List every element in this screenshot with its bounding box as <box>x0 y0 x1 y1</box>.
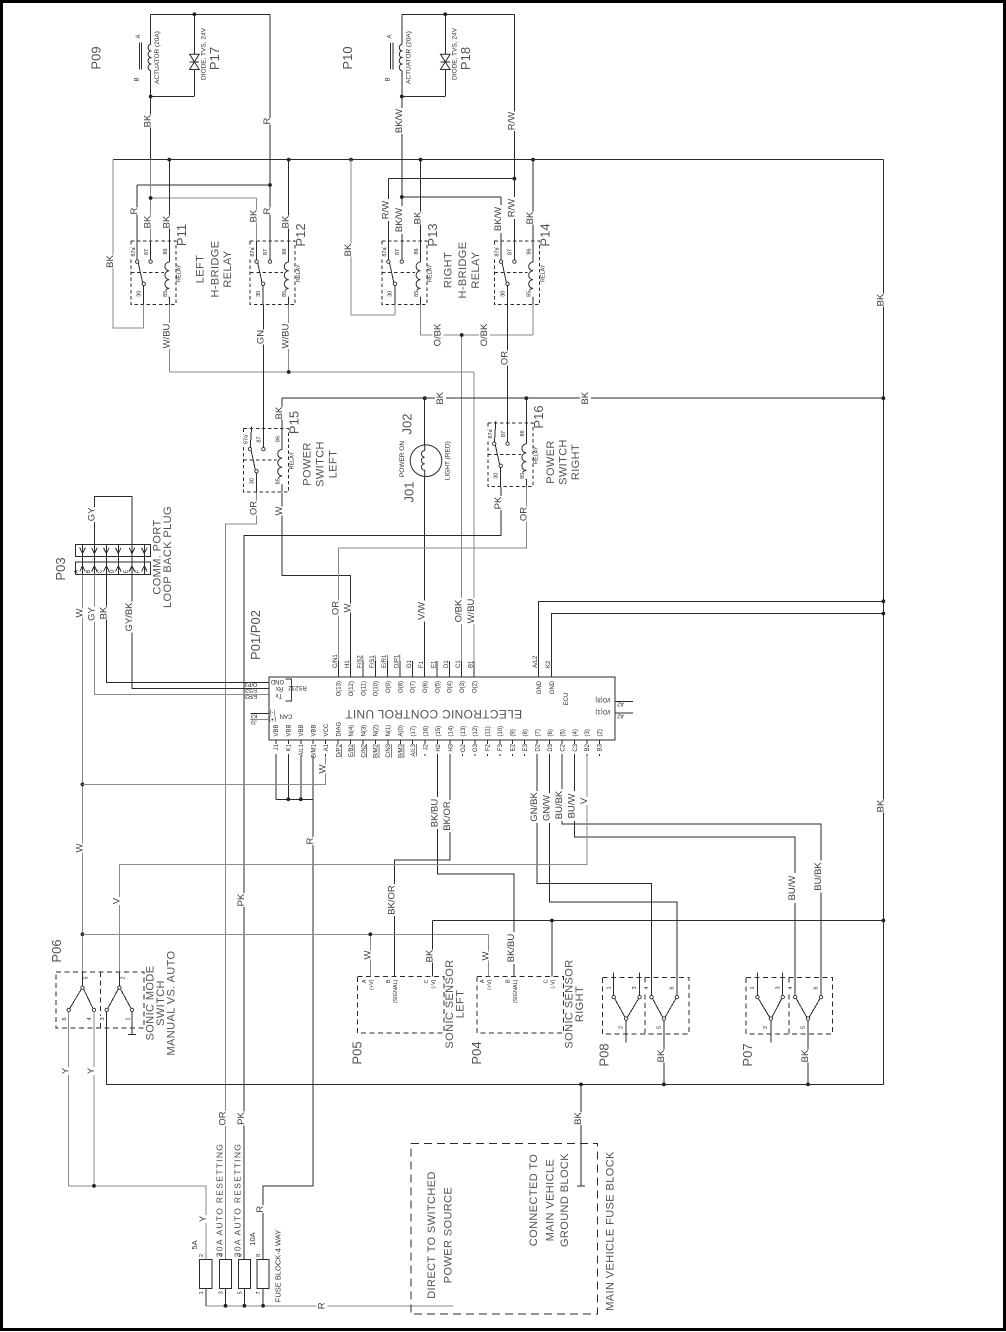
svg-text:VBB: VBB <box>274 724 280 736</box>
relay P12 contact 87a <box>255 260 258 263</box>
connector P10 actuator <box>402 13 515 15</box>
svg-text:6: 6 <box>62 1017 68 1020</box>
wire BK net sensor -V returns <box>432 920 883 922</box>
wire BK bus drop to P13-30 <box>351 160 395 315</box>
fuse 2 body <box>219 1260 231 1289</box>
svg-text:N(4): N(4) <box>349 725 355 737</box>
wire BU/BK net ECU C2 to P07-6 <box>562 756 821 995</box>
relay P12 pin labels <box>250 246 257 256</box>
svg-text:O(8): O(8) <box>398 681 404 693</box>
relay P13 outline <box>382 241 427 305</box>
svg-text:3: 3 <box>100 1017 106 1020</box>
svg-text:5: 5 <box>800 1026 806 1029</box>
relay P14 outline <box>495 241 540 305</box>
svg-text:10A: 10A <box>248 1232 257 1245</box>
wire OR net P14-30 to P16-87 <box>507 305 509 424</box>
relay P14 contact 87a <box>499 260 502 263</box>
svg-text:C/N3: C/N3 <box>386 743 392 757</box>
relay P13 contact 87a <box>387 260 390 263</box>
svg-text:O(10): O(10) <box>374 681 380 696</box>
wire diode to actuator B P09 <box>151 96 195 98</box>
svg-text:BK: BK <box>98 606 109 619</box>
svg-text:GY/BK: GY/BK <box>124 602 135 632</box>
ECU top pin O(9) net E/R1 <box>387 661 389 677</box>
svg-text:BK: BK <box>424 949 435 962</box>
svg-text:E/R3: E/R3 <box>245 693 257 699</box>
svg-text:W: W <box>362 950 373 959</box>
svg-text:Tx: Tx <box>276 692 283 698</box>
svg-text:P14: P14 <box>538 223 553 246</box>
svg-text:O(3): O(3) <box>460 681 466 693</box>
svg-text:B/M1: B/M1 <box>312 743 318 758</box>
relay P16 pin labels <box>487 428 494 438</box>
svg-text:R/W: R/W <box>506 112 517 131</box>
ECU bottom pin VCC net A1 <box>325 740 327 756</box>
svg-text:87a: 87a <box>250 246 256 256</box>
P03 pin A contact <box>82 545 84 575</box>
svg-text:O(6): O(6) <box>423 681 429 693</box>
relay P12 outline <box>250 241 295 305</box>
svg-text:GY: GY <box>86 606 97 620</box>
svg-text:GN/W: GN/W <box>542 795 553 821</box>
svg-text:(-V): (-V) <box>431 979 437 988</box>
wire R/W net P18 to P13-87a and P14-87 <box>388 178 514 180</box>
P08 contacts <box>613 972 615 995</box>
P07 contacts <box>756 972 758 995</box>
ECU bottom pin (8) net E3 <box>524 740 526 756</box>
ECU bottom pin (14) net H3 <box>449 740 451 756</box>
P08 blades <box>615 999 625 1018</box>
wire GY loopback P03 B to E <box>94 496 131 544</box>
svg-text:O(11): O(11) <box>361 681 367 696</box>
svg-text:A/L1: A/L1 <box>299 743 305 756</box>
lamp J02 power-on light <box>424 398 426 445</box>
wire BK P07 pin 5 to ground bus <box>807 1020 809 1084</box>
relay P15 pin labels <box>243 434 250 444</box>
P03 pin D contact <box>117 545 119 575</box>
wire V net ECU B2 to P06-2 <box>119 756 587 972</box>
P06 pin 1 stub <box>131 1012 133 1035</box>
svg-text:BU/W: BU/W <box>566 794 577 819</box>
svg-text:86: 86 <box>527 248 533 254</box>
svg-text:BK: BK <box>143 114 154 127</box>
wire V/W lamp J01 to ECU O(6) <box>424 476 426 677</box>
svg-text:CAN: CAN <box>280 713 293 719</box>
P06 contacts 6 4 3 1 <box>67 1008 70 1011</box>
svg-text:D/P2: D/P2 <box>336 743 342 757</box>
svg-text:H-BRIDGE: H-BRIDGE <box>210 241 222 298</box>
fuse 4 body <box>257 1260 269 1289</box>
svg-text:Y: Y <box>198 1215 209 1222</box>
svg-text:RELAY: RELAY <box>222 250 234 288</box>
svg-text:R: R <box>255 1206 266 1213</box>
svg-text:A/L3: A/L3 <box>411 743 417 756</box>
svg-text:N(1): N(1) <box>386 725 392 737</box>
actuator core P10 <box>390 43 392 70</box>
svg-text:G1: G1 <box>407 659 413 668</box>
wire stub ECU B3 <box>598 755 600 757</box>
svg-text:GND: GND <box>537 680 543 694</box>
svg-text:C: C <box>424 979 430 983</box>
ECU top pin O(7) net G1 <box>411 661 413 677</box>
svg-text:87a: 87a <box>244 434 250 444</box>
relay P16 coil <box>525 423 527 444</box>
svg-text:BK: BK <box>343 243 354 256</box>
svg-text:F1: F1 <box>419 660 425 668</box>
svg-text:N(3): N(3) <box>361 725 367 737</box>
relay P16 outline <box>488 423 533 487</box>
wire BK bus right drop <box>882 160 884 1085</box>
relay P12 coil <box>288 241 290 262</box>
svg-text:LEFT: LEFT <box>328 450 340 479</box>
ECU CAN stub K3 <box>251 713 269 715</box>
svg-text:30A AUTO RESETTING: 30A AUTO RESETTING <box>214 1143 224 1257</box>
svg-text:RIGHT: RIGHT <box>570 444 582 480</box>
svg-text:PK: PK <box>236 893 247 906</box>
svg-text:SWITCH: SWITCH <box>558 439 570 485</box>
ECU bottom pin (2) net B3 <box>598 740 600 756</box>
svg-text:D: D <box>110 569 116 573</box>
svg-text:(5): (5) <box>560 729 566 736</box>
svg-text:J02: J02 <box>400 414 415 435</box>
svg-text:J01: J01 <box>402 482 417 503</box>
svg-text:BK/BU: BK/BU <box>430 799 441 828</box>
svg-text:4: 4 <box>788 986 794 989</box>
svg-text:R: R <box>305 837 316 844</box>
fuse 1 body <box>200 1260 212 1289</box>
svg-text:B3: B3 <box>598 743 604 751</box>
connector P04 outline <box>477 977 563 1034</box>
svg-text:85: 85 <box>527 291 533 297</box>
fuse 3 body <box>238 1260 250 1289</box>
ECU RS232 port <box>286 679 292 701</box>
svg-text:P07: P07 <box>740 1043 755 1066</box>
wire W net ECU A1 <box>83 756 326 784</box>
svg-text:E1: E1 <box>432 660 438 668</box>
svg-text:BK/W: BK/W <box>394 109 405 133</box>
svg-text:87a: 87a <box>131 246 137 256</box>
svg-text:RELAY: RELAY <box>428 264 434 282</box>
svg-text:BK/W: BK/W <box>493 207 504 231</box>
svg-text:R: R <box>262 117 273 124</box>
svg-text:D/P1: D/P1 <box>395 654 401 668</box>
relay P12 contact 87 <box>268 260 271 263</box>
svg-text:1: 1 <box>125 1017 131 1020</box>
wire R net P17 to P11-87a and P12-87 <box>137 184 270 186</box>
wire W net P15-85 to ECU O(12) <box>282 493 351 678</box>
svg-text:W/BU: W/BU <box>281 323 292 348</box>
svg-text:E: E <box>123 569 129 573</box>
svg-text:1: 1 <box>199 1291 205 1294</box>
relay P16 contact 87 <box>506 442 509 445</box>
svg-text:P01/P02: P01/P02 <box>248 610 263 660</box>
wire BK net P06-3 to ground bus <box>106 1012 108 1085</box>
svg-text:ACTUATOR (20A): ACTUATOR (20A) <box>405 31 412 84</box>
svg-text:I/O(1): I/O(1) <box>595 708 610 714</box>
svg-text:87: 87 <box>395 249 401 255</box>
P03 pin F contact <box>143 545 145 575</box>
svg-text:A: A <box>136 34 142 38</box>
wire R net VBB to fuse 4 <box>263 799 313 1259</box>
relay P15 contact 87 <box>262 447 265 450</box>
svg-text:K3: K3 <box>251 713 258 719</box>
svg-text:P09: P09 <box>89 46 104 69</box>
svg-text:R/W: R/W <box>506 199 517 218</box>
relay P14 contact 87 <box>513 260 516 263</box>
svg-text:GY: GY <box>86 507 97 521</box>
svg-text:GN: GN <box>255 330 266 344</box>
svg-text:C3: C3 <box>573 743 579 751</box>
svg-text:3: 3 <box>775 986 781 989</box>
svg-text:VCC: VCC <box>324 723 330 736</box>
svg-text:(9): (9) <box>511 729 517 736</box>
svg-text:Rx: Rx <box>276 685 283 691</box>
svg-text:O(2): O(2) <box>472 681 478 693</box>
svg-text:R/W: R/W <box>380 201 391 220</box>
relay P11 pin labels <box>130 246 137 256</box>
wire GY/BK P03-E to ECU Rx <box>132 575 269 689</box>
ECU top pin O(12) net H1 <box>350 661 352 677</box>
svg-text:RELAY: RELAY <box>534 446 540 464</box>
svg-text:87: 87 <box>257 436 263 442</box>
svg-text:R: R <box>129 207 140 214</box>
wire W net supply to sensors <box>83 933 489 935</box>
svg-text:4: 4 <box>87 1017 93 1020</box>
svg-text:(13): (13) <box>461 726 467 737</box>
svg-text:OR: OR <box>500 351 511 365</box>
svg-text:RS232: RS232 <box>288 684 307 690</box>
junction dots on BK top bus <box>167 158 171 162</box>
svg-text:85: 85 <box>163 291 169 297</box>
svg-text:A(0): A(0) <box>399 725 405 736</box>
svg-text:W: W <box>75 608 86 617</box>
ECU electronic control unit box <box>269 677 615 740</box>
svg-text:86: 86 <box>282 248 288 254</box>
svg-text:BK: BK <box>281 215 292 228</box>
relay P16 blade <box>495 445 499 465</box>
svg-text:BK: BK <box>413 211 424 224</box>
ECU top pin O(10) net F/S1 <box>374 661 376 677</box>
wire OR net P16-85 to ECU O(13) <box>338 487 526 677</box>
svg-text:F/S2: F/S2 <box>358 655 364 668</box>
P06 switch pin 5 <box>82 972 84 986</box>
relay P13 contact 87 <box>400 260 403 263</box>
svg-text:V: V <box>111 897 122 904</box>
relay P11 contact 87a <box>136 260 139 263</box>
P07 blades <box>758 999 769 1018</box>
svg-text:A: A <box>387 34 393 38</box>
svg-text:OR: OR <box>218 1111 229 1125</box>
wire GN/BK net ECU D2 to P08-4 <box>537 756 651 995</box>
ECU right pin I/O(8) net A2 <box>615 700 633 702</box>
svg-text:87: 87 <box>508 249 514 255</box>
svg-text:(12): (12) <box>473 726 479 737</box>
svg-text:4: 4 <box>644 986 650 989</box>
wire BK left drop to relay 30 pins P11 <box>113 160 144 328</box>
svg-text:F/S3: F/S3 <box>245 687 257 693</box>
wire BK P15 coil 86 to bus <box>281 398 283 428</box>
svg-text:87a: 87a <box>495 246 501 256</box>
svg-text:RELAY: RELAY <box>470 251 482 289</box>
svg-text:PK: PK <box>236 1112 247 1125</box>
svg-text:Y: Y <box>61 1067 72 1074</box>
relay P11 outline <box>131 241 176 305</box>
svg-text:D2: D2 <box>535 743 541 751</box>
lamp filament <box>421 445 424 476</box>
svg-text:(11): (11) <box>486 726 492 736</box>
ECU bottom pin VBB net J1 <box>275 740 277 756</box>
wire Y net P06-6 <box>68 1012 70 1186</box>
ECU bottom pin (11) net F2 <box>486 740 488 756</box>
wire W/BU net P11-85 P12-85 to ECU O(2) <box>168 305 170 373</box>
P07 pivots <box>769 1017 772 1020</box>
svg-text:O(13): O(13) <box>337 681 343 696</box>
svg-text:BK: BK <box>435 391 446 404</box>
ECU bottom pin DIAG net D/P2 <box>337 740 339 756</box>
wire BK/W from P10 pin B <box>401 97 403 160</box>
svg-text:P12: P12 <box>293 223 308 246</box>
svg-text:BK: BK <box>525 211 536 224</box>
svg-text:H1: H1 <box>345 660 351 668</box>
svg-text:DIAG: DIAG <box>336 721 342 736</box>
svg-text:(2): (2) <box>598 729 604 736</box>
svg-text:W: W <box>343 603 354 612</box>
svg-text:POWER ON: POWER ON <box>399 441 406 477</box>
svg-text:(-V): (-V) <box>551 979 557 988</box>
wire Y net to fuse 1 <box>69 1186 206 1260</box>
wire GN/W net ECU D3 to P08-6 <box>550 756 677 995</box>
svg-text:87a: 87a <box>488 428 494 438</box>
relay P11 contact 87 <box>149 260 152 263</box>
svg-text:MAIN VEHICLE FUSE BLOCK: MAIN VEHICLE FUSE BLOCK <box>604 1151 616 1311</box>
svg-text:ELECTRONIC CONTROL UNIT: ELECTRONIC CONTROL UNIT <box>345 707 523 721</box>
P03 pin C contact <box>105 545 107 575</box>
ECU top pin O(8) net D/P1 <box>399 661 401 677</box>
wire Y net P06-4 <box>93 1012 95 1186</box>
svg-text:DIRECT TO SWITCHED: DIRECT TO SWITCHED <box>426 1171 438 1299</box>
relay P11 blade <box>138 263 142 283</box>
svg-text:POWER SOURCE: POWER SOURCE <box>443 1187 455 1283</box>
svg-text:6: 6 <box>670 986 676 989</box>
svg-text:B: B <box>506 979 512 983</box>
svg-text:LIGHT (RED): LIGHT (RED) <box>445 441 452 480</box>
svg-text:P08: P08 <box>596 1043 611 1066</box>
svg-text:C2: C2 <box>560 743 566 751</box>
wire PK net P16-30 to fuse 3 <box>244 487 501 1260</box>
svg-text:1: 1 <box>750 986 756 989</box>
svg-text:P15: P15 <box>287 411 302 434</box>
ECU top pin O(6) net F1 <box>424 661 426 677</box>
svg-text:ECU: ECU <box>564 693 570 706</box>
relay P14 blade <box>502 263 506 283</box>
P06 blades <box>70 989 82 1008</box>
ECU bottom pin (6) net D3 <box>549 740 551 756</box>
svg-text:G3: G3 <box>473 743 479 752</box>
svg-text:86: 86 <box>520 430 526 436</box>
svg-text:C/N1: C/N1 <box>333 654 339 668</box>
svg-text:J1: J1 <box>274 743 280 750</box>
svg-text:O/P3: O/P3 <box>245 681 258 687</box>
svg-text:VBB: VBB <box>299 724 305 736</box>
svg-text:(SIGNAL): (SIGNAL) <box>393 979 399 1003</box>
connector P06 outline <box>56 972 144 1028</box>
ECU right pin I/O(1) net A2 <box>615 712 633 714</box>
svg-text:BK: BK <box>656 1049 667 1062</box>
svg-text:VBB: VBB <box>312 724 318 736</box>
connector P03 comm port <box>75 545 150 557</box>
svg-text:ACTUATOR (20A): ACTUATOR (20A) <box>154 31 161 84</box>
wire BK bus to P13 coil 86 <box>420 160 422 241</box>
wire R from P09 diode top <box>269 14 271 185</box>
wire BK net P09-B to P11-87 and P12-87a <box>151 197 257 199</box>
ECU top pin O(5) net E1 <box>436 661 438 677</box>
svg-text:E/B2: E/B2 <box>349 743 355 757</box>
svg-text:P13: P13 <box>425 223 440 246</box>
svg-text:C/N2: C/N2 <box>361 743 367 757</box>
svg-text:(6): (6) <box>548 729 554 736</box>
svg-text:3: 3 <box>632 986 638 989</box>
svg-text:87: 87 <box>144 249 150 255</box>
ECU top pin O(3) net C1 <box>461 661 463 677</box>
svg-text:E/R1: E/R1 <box>382 654 388 668</box>
svg-text:5A: 5A <box>190 1240 199 1249</box>
relay P15 contact 87a <box>248 447 251 450</box>
svg-text:RELAY: RELAY <box>296 264 302 282</box>
svg-text:POWER: POWER <box>302 442 314 486</box>
svg-text:W/BU: W/BU <box>466 598 477 623</box>
svg-text:B: B <box>134 77 140 81</box>
ECU bottom pin (5) net C2 <box>561 740 563 756</box>
ECU bottom pin (9) net E2 <box>511 740 513 756</box>
svg-text:30: 30 <box>494 473 500 479</box>
svg-text:O/BK: O/BK <box>454 599 465 622</box>
svg-text:O/BK: O/BK <box>433 323 444 346</box>
svg-text:(15): (15) <box>436 726 442 737</box>
svg-text:(4): (4) <box>573 729 579 736</box>
svg-text:30: 30 <box>500 291 506 297</box>
svg-text:H-BRIDGE: H-BRIDGE <box>457 242 469 299</box>
wire BK bus to P14 coil 86 <box>532 160 534 241</box>
svg-text:P04: P04 <box>469 1041 484 1064</box>
svg-text:OR: OR <box>330 601 341 615</box>
svg-text:85: 85 <box>520 473 526 479</box>
main vehicle fuse block dashed box <box>411 1143 598 1314</box>
wire BK P16 coil 86 to bus <box>525 398 527 423</box>
svg-text:86: 86 <box>276 436 282 442</box>
wire BK/OR net ECU H3 to P05-B <box>394 756 450 977</box>
ECU top pin O(13) net C/N1 <box>337 661 339 677</box>
svg-text:30: 30 <box>249 478 255 484</box>
ECU bottom pin A(0) net B/M3 <box>399 740 401 756</box>
svg-text:N(2): N(2) <box>374 725 380 737</box>
svg-text:O(5): O(5) <box>435 681 441 693</box>
svg-text:E3: E3 <box>523 743 529 751</box>
svg-text:30A AUTO RESETTING: 30A AUTO RESETTING <box>232 1143 242 1257</box>
relay P12 blade <box>258 263 262 283</box>
svg-text:2: 2 <box>763 1026 769 1029</box>
svg-text:FUSE BLOCK-4 WAY: FUSE BLOCK-4 WAY <box>273 1230 282 1303</box>
svg-text:D3: D3 <box>548 743 554 751</box>
relay P14 coil <box>532 241 534 262</box>
svg-text:2: 2 <box>121 976 127 979</box>
svg-text:SWITCH: SWITCH <box>315 441 327 487</box>
svg-text:Y: Y <box>86 1067 97 1074</box>
P03 pin E contact <box>131 545 133 575</box>
svg-text:O(4): O(4) <box>448 681 454 693</box>
svg-text:B: B <box>386 979 392 983</box>
wire BK bus power switches <box>282 397 883 399</box>
svg-text:GROUND BLOCK: GROUND BLOCK <box>559 1153 571 1247</box>
